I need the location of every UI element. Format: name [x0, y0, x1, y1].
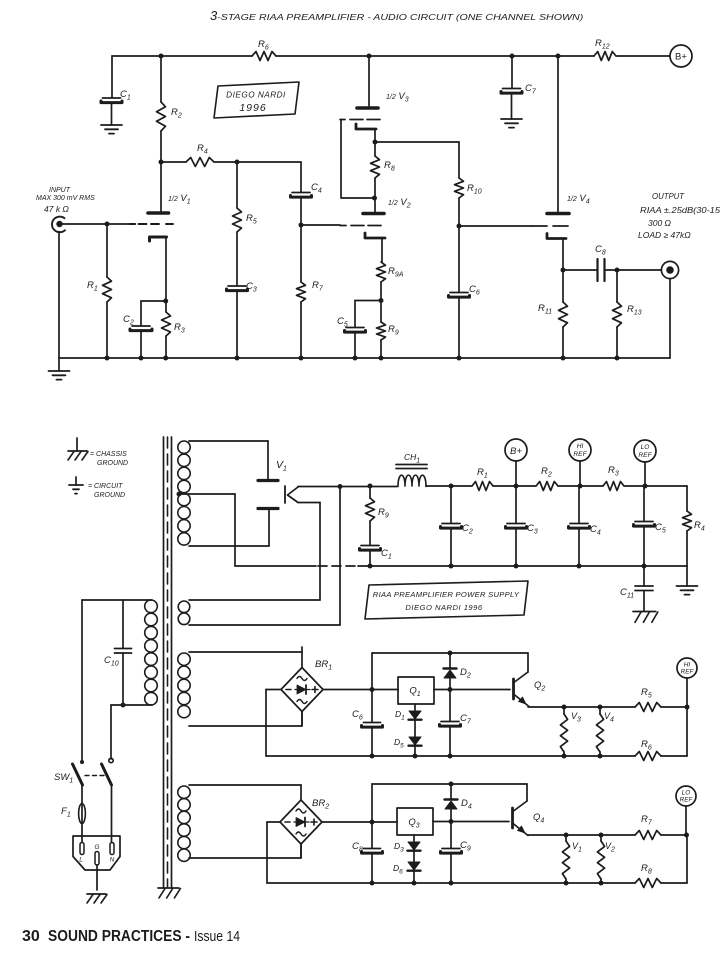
svg-text:RIAA ±.25dB(30-15: RIAA ±.25dB(30-15 — [640, 206, 721, 215]
svg-text:B+: B+ — [510, 446, 522, 457]
svg-text:REF: REF — [573, 451, 587, 458]
svg-text:LO: LO — [682, 790, 691, 797]
svg-text:MAX 300 mV RMS: MAX 300 mV RMS — [36, 195, 95, 202]
svg-text:GROUND: GROUND — [97, 460, 128, 467]
svg-text:HI: HI — [684, 662, 691, 669]
svg-text:L: L — [79, 857, 83, 864]
svg-text:Issue 14: Issue 14 — [194, 928, 240, 945]
svg-text:30: 30 — [22, 928, 40, 945]
svg-text:G: G — [94, 844, 99, 851]
svg-text:GROUND: GROUND — [94, 492, 125, 499]
svg-text:REF: REF — [681, 669, 695, 676]
svg-text:B+: B+ — [675, 52, 687, 63]
svg-text:N: N — [110, 857, 115, 864]
svg-text:LO: LO — [641, 444, 650, 451]
svg-text:= CIRCUIT: = CIRCUIT — [88, 483, 123, 490]
svg-text:1996: 1996 — [239, 102, 266, 114]
svg-text:HI: HI — [577, 443, 584, 450]
svg-text:DIEGO NARDI: DIEGO NARDI — [226, 91, 286, 100]
svg-text:LOAD ≥ 47kΩ: LOAD ≥ 47kΩ — [638, 230, 691, 240]
svg-text:47 k Ω: 47 k Ω — [44, 204, 69, 214]
svg-text:= CHASSIS: = CHASSIS — [90, 451, 127, 458]
svg-text:INPUT: INPUT — [49, 187, 71, 194]
svg-text:REF: REF — [680, 797, 694, 804]
svg-text:SOUND PRACTICES -: SOUND PRACTICES - — [48, 928, 190, 945]
svg-text:REF: REF — [638, 452, 652, 459]
svg-text:300 Ω: 300 Ω — [648, 218, 672, 228]
svg-text:DIEGO NARDI 1996: DIEGO NARDI 1996 — [405, 603, 482, 612]
svg-text:RIAA PREAMPLIFIER POWER SUPP: RIAA PREAMPLIFIER POWER SUPPLY — [373, 590, 520, 599]
svg-text:OUTPUT: OUTPUT — [652, 192, 685, 201]
